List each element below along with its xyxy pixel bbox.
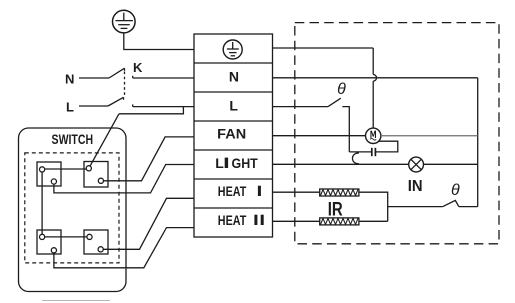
thermostat switch θ1 (328, 98, 349, 152)
wire motor to N bus (grey) (381, 135, 478, 137)
terminal circles of switches (40, 166, 104, 253)
wire switch-box common to terminal L (jog) (119, 107, 183, 114)
svg-text:GHT: GHT (232, 155, 259, 171)
wire L row to thermostat 1 (273, 106, 329, 108)
heater element IR-1 (320, 189, 359, 196)
wire HEAT II row to heater (273, 220, 320, 222)
switch box enclosure (19, 128, 127, 292)
motor M1 (366, 128, 381, 143)
svg-text:N: N (229, 68, 239, 84)
wire arc tap to LIGHT line (352, 153, 358, 164)
svg-text:FAN: FAN (217, 125, 246, 141)
wire θ2 to N bus (459, 206, 478, 208)
wire LIGHT row to lamp (273, 163, 409, 165)
svg-text:L: L (66, 100, 74, 115)
svg-text:L: L (229, 98, 238, 114)
switch S4 (bottom-right) (84, 230, 108, 254)
wire HEAT I row to heater (273, 191, 320, 193)
capacitor C1 (372, 148, 376, 156)
wire common bus S3-S4 (42, 236, 89, 238)
earth symbol in terminal block row 1 (223, 40, 242, 59)
svg-text:IN: IN (408, 178, 423, 195)
wire S3 output to terminal HEAT II (54, 228, 194, 268)
switch S1 (top-left) (37, 162, 61, 186)
wire N row to right N bus (273, 77, 478, 79)
terminal block outline (194, 34, 273, 237)
wire heater IR-1 to junction (359, 192, 388, 221)
wire earth-symbol to terminal block PE row (124, 33, 194, 50)
wire FAN row to motor (273, 135, 366, 137)
switch K pole 2 (L) (108, 97, 133, 106)
svg-text:SWITCH: SWITCH (52, 132, 94, 147)
svg-text:θ: θ (337, 81, 346, 98)
switch S3 (bottom-left) (37, 230, 61, 254)
label HEAT II (terminal) (218, 212, 264, 228)
lamp IN (409, 157, 424, 172)
svg-text:L: L (215, 155, 224, 171)
node N input (79, 77, 109, 79)
svg-text:HEAT: HEAT (218, 212, 247, 228)
heater element IR-2 (320, 218, 359, 225)
wire common bus S1-S2 (42, 168, 89, 170)
wire S2 output to terminal FAN (101, 137, 194, 181)
dashed enclosure box (appliance) (295, 23, 499, 244)
terminal block row separators (194, 63, 273, 208)
node L input (79, 105, 108, 107)
wire PE row to motor frame (273, 48, 377, 128)
switch S2 (top-right) (84, 162, 108, 188)
wire θ1 to capacitor (349, 151, 372, 153)
svg-text:IR: IR (328, 199, 343, 220)
ganged link of switch K (dashed) (124, 72, 126, 97)
wire diagonal switch-box common feed (89, 114, 119, 169)
wire S4 output to terminal HEAT I (101, 198, 194, 249)
wire S1 output to terminal LIGHT (54, 165, 194, 193)
wire lamp to N bus (424, 163, 478, 165)
thermostat switch θ2 (443, 200, 459, 206)
label M (motor) (370, 131, 376, 141)
earth symbol top (protective earth in circle) (113, 10, 136, 33)
label LIGHT (terminal) (215, 155, 258, 171)
wire common bus S1-S3 (41, 169, 43, 237)
wire heater IR-2 joins IR-1 (359, 220, 388, 222)
wire heater junction to thermostat 2 (388, 206, 443, 208)
wire capacitor to motor lower-right (375, 141, 397, 152)
svg-text:θ: θ (451, 182, 460, 199)
svg-text:K: K (133, 60, 143, 75)
wire switch K to terminal L (133, 106, 194, 108)
svg-text:N: N (65, 71, 74, 86)
label HEAT I (terminal) (218, 183, 261, 199)
svg-text:HEAT: HEAT (218, 183, 247, 199)
node N bus (right vertical) (477, 78, 479, 207)
wire switch K to terminal N (133, 77, 194, 79)
switch K pole 1 (N) (109, 68, 133, 78)
faint artifact line bottom (42, 300, 110, 302)
switch box inner dashed frame (25, 153, 119, 263)
